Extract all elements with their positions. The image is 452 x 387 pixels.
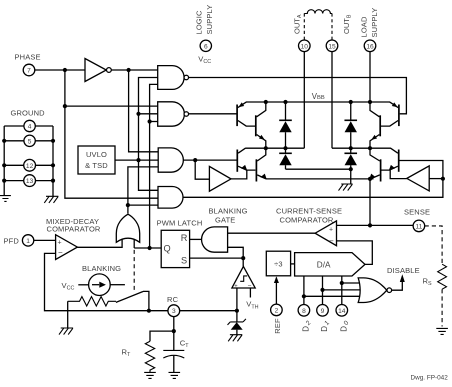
UVLO & TSD block: [78, 146, 115, 174]
pin 13: [24, 175, 36, 187]
wire div3 to D/A: [291, 263, 295, 265]
wire trunk T3 latch-Q feedback: [148, 84, 158, 250]
MIXED-DECAY COMPARATOR label: [46, 217, 101, 233]
pin 3 RC: [167, 295, 180, 317]
svg-text:+: +: [329, 226, 333, 233]
svg-text:−: −: [58, 248, 63, 257]
svg-text:−: −: [329, 236, 334, 245]
wire D2 pin8 to D/A and NOR: [302, 276, 360, 305]
svg-text:9: 9: [321, 308, 325, 315]
svg-text:BLANKING: BLANKING: [82, 264, 121, 273]
wire comparator minus to RC node: [45, 253, 168, 312]
nand gate G2: [158, 102, 189, 126]
svg-text:& TSD: & TSD: [85, 161, 108, 170]
and gate G4: [158, 187, 183, 209]
wire OUT A pin10 to left bridge node: [245, 52, 304, 151]
resistor RT: [145, 341, 154, 372]
blanking resistor: [68, 297, 116, 306]
svg-text:COMPARATOR: COMPARATOR: [280, 215, 334, 224]
svg-text:Dwg. FP-042: Dwg. FP-042: [411, 375, 449, 382]
svg-text:13: 13: [26, 178, 34, 185]
VBB rail: [246, 100, 390, 104]
svg-text:Q: Q: [164, 243, 171, 253]
svg-text:SENSE: SENSE: [404, 208, 430, 217]
svg-text:UVLO: UVLO: [86, 150, 107, 159]
wire gate3 output to left sink driver: [183, 158, 237, 179]
wire comparator plus input to SENSE: [337, 224, 414, 226]
wire sense drop to comparator: [368, 179, 372, 228]
transistor Q2 upper-left NPN output: [256, 102, 266, 148]
ground below CT: [169, 372, 181, 378]
diode D2 lower left: [279, 148, 292, 169]
ground below RT: [144, 372, 156, 378]
D/A converter block: [295, 253, 365, 276]
mixed-decay comparator U-MD: [56, 235, 78, 260]
wire UVLO output to gate3: [115, 159, 158, 161]
svg-text:LOAD: LOAD: [360, 16, 369, 37]
wire gate4 output to right sink driver: [183, 161, 445, 198]
buffer amp left sink driver: [209, 166, 246, 191]
pin 16 LOAD SUPPLY: [360, 8, 380, 52]
LOGIC SUPPLY label: [195, 5, 215, 35]
bridge ground: [339, 184, 353, 191]
pin 7 PHASE: [15, 53, 41, 76]
svg-text:S: S: [181, 255, 187, 265]
svg-text:RC: RC: [167, 295, 179, 304]
transistor Q4 lower-left NPN output: [256, 148, 266, 181]
svg-text:+: +: [58, 240, 62, 247]
diode D1 upper left: [279, 102, 292, 148]
wire lower diode common to bridge ground: [286, 167, 353, 184]
wire trunk T2: [136, 78, 158, 191]
blanking switch: [116, 291, 149, 310]
pin 4: [24, 120, 35, 131]
wire comparator output to blanking gate: [228, 232, 316, 234]
pin 11 SENSE: [413, 220, 425, 232]
wire latch Q output: [134, 247, 161, 249]
GROUND pins ladder: [2, 126, 55, 196]
transistor Q3 lower-left NPN: [237, 148, 255, 172]
wire REF pin2 arrow into div3: [274, 276, 279, 304]
svg-text:3: 3: [172, 308, 176, 315]
svg-text:PWM LATCH: PWM LATCH: [157, 218, 203, 227]
svg-text:5: 5: [28, 138, 32, 145]
diode D4 lower right: [344, 148, 357, 169]
wire LOAD SUPPLY pin16 to VBB rail: [369, 52, 371, 102]
svg-text:D/A: D/A: [317, 261, 331, 270]
wire NAND1 output to right source driver: [189, 78, 407, 114]
svg-text:16: 16: [366, 43, 374, 50]
wire RC node to RT CT: [150, 317, 176, 342]
svg-text:14: 14: [338, 308, 346, 315]
ground symbol right rail: [44, 196, 58, 203]
inverter U-inv: [85, 59, 111, 82]
PWM latch: [161, 230, 189, 267]
svg-text:LOGIC: LOGIC: [195, 10, 204, 35]
ground below zener: [228, 335, 242, 342]
transistor Q7 lower-right NPN: [381, 148, 399, 172]
pin 10 OUT A: [292, 14, 310, 51]
svg-text:GATE: GATE: [215, 216, 235, 225]
wire resistor to ground: [67, 301, 69, 328]
wire D1 pin9 to D/A and NOR: [320, 276, 361, 305]
transistor Q5 upper-right PNP: [381, 102, 399, 126]
wire phase to NAND2 input1: [65, 105, 158, 107]
NOR gate G6: [358, 278, 391, 303]
wire RC pin3 to threshold node: [180, 310, 237, 312]
nand gate G1: [158, 66, 189, 90]
svg-text:GROUND: GROUND: [11, 108, 46, 117]
pin 14 D0: [336, 305, 351, 332]
svg-text:SUPPLY: SUPPLY: [370, 8, 379, 38]
pin 15 OUT B: [326, 14, 352, 51]
pin 1 PFD: [4, 235, 34, 246]
svg-text:2: 2: [275, 307, 279, 314]
svg-text:12: 12: [26, 163, 34, 170]
VTH buffer comparator: [232, 266, 255, 289]
pin 9 D1: [317, 305, 332, 332]
svg-text:PHASE: PHASE: [15, 53, 41, 62]
divide-by-3 block: [266, 251, 290, 276]
wire blanking gate input2 from VTH buffer: [228, 247, 244, 266]
svg-text:7: 7: [27, 68, 31, 75]
svg-text:DISABLE: DISABLE: [387, 266, 420, 275]
blanking current source: [78, 274, 125, 296]
current-sense comparator U-CS: [315, 221, 336, 246]
wire emitter sense rail: [266, 177, 374, 181]
buffer amp right sink driver: [390, 166, 443, 191]
svg-text:REF: REF: [273, 318, 282, 334]
svg-text:CURRENT-SENSE: CURRENT-SENSE: [276, 206, 342, 215]
pin 2 REF: [271, 304, 283, 334]
wire VTH stub: [249, 288, 251, 298]
dashed control line to switch: [133, 250, 135, 291]
ground below RS: [436, 328, 448, 334]
svg-text:8: 8: [302, 308, 306, 315]
wire latch R input: [190, 238, 202, 240]
wire buffer plus input to RC node: [235, 288, 239, 313]
svg-text:10: 10: [301, 43, 309, 50]
transistor Q1 upper-left PNP: [237, 102, 255, 126]
CURRENT-SENSE COMPARATOR label: [276, 206, 342, 224]
transistor Q8 lower-right NPN output: [369, 148, 380, 181]
SENSE pin11 external RS: [425, 226, 447, 327]
wire D0 pin14 to D/A and NOR: [340, 276, 361, 305]
ground below blanking resistor: [59, 328, 73, 335]
blanking gate G5: [202, 227, 228, 252]
svg-text:PFD: PFD: [4, 236, 20, 245]
svg-text:4: 4: [28, 124, 32, 131]
svg-text:15: 15: [328, 43, 336, 50]
diode D3 upper right: [344, 102, 357, 148]
pin 12: [24, 159, 36, 171]
zener diode: [228, 311, 246, 335]
svg-text:÷3: ÷3: [274, 260, 283, 269]
pin 8 D2: [298, 305, 313, 332]
wire comparator minus to D/A: [337, 241, 373, 265]
mixed-decay OR gate: [77, 214, 139, 248]
BLANKING GATE label: [209, 207, 248, 225]
load inductor (external): [304, 10, 332, 40]
wire OUT B pin15 to right bridge node: [332, 52, 391, 151]
wire latch S input: [190, 256, 246, 260]
pin 5: [24, 135, 35, 146]
svg-text:6: 6: [204, 43, 208, 50]
wire trunk T4 mixed-decay OR output: [126, 167, 158, 214]
and gate G3: [158, 148, 183, 172]
wire PHASE input to inverter: [35, 68, 158, 72]
ground symbol left rail: [0, 196, 11, 202]
svg-text:SUPPLY: SUPPLY: [205, 5, 214, 35]
wire phase vertical to gate4 input: [63, 70, 158, 198]
svg-text:R: R: [181, 233, 188, 243]
svg-text:1: 1: [26, 238, 30, 245]
wire PFD pin1 to comparator: [34, 239, 56, 241]
wire NAND2 output to left source driver: [189, 113, 238, 115]
capacitor CT: [163, 331, 184, 372]
transistor Q6 upper-right NPN output: [370, 102, 380, 148]
wire NOR output to DISABLE: [392, 274, 405, 290]
svg-text:11: 11: [415, 223, 422, 230]
pin 6 VCC: [198, 40, 211, 65]
svg-text:BLANKING: BLANKING: [209, 207, 248, 216]
wire inverted-phase trunk T1 to gate3: [129, 70, 159, 152]
svg-text:COMPARATOR: COMPARATOR: [47, 224, 101, 233]
